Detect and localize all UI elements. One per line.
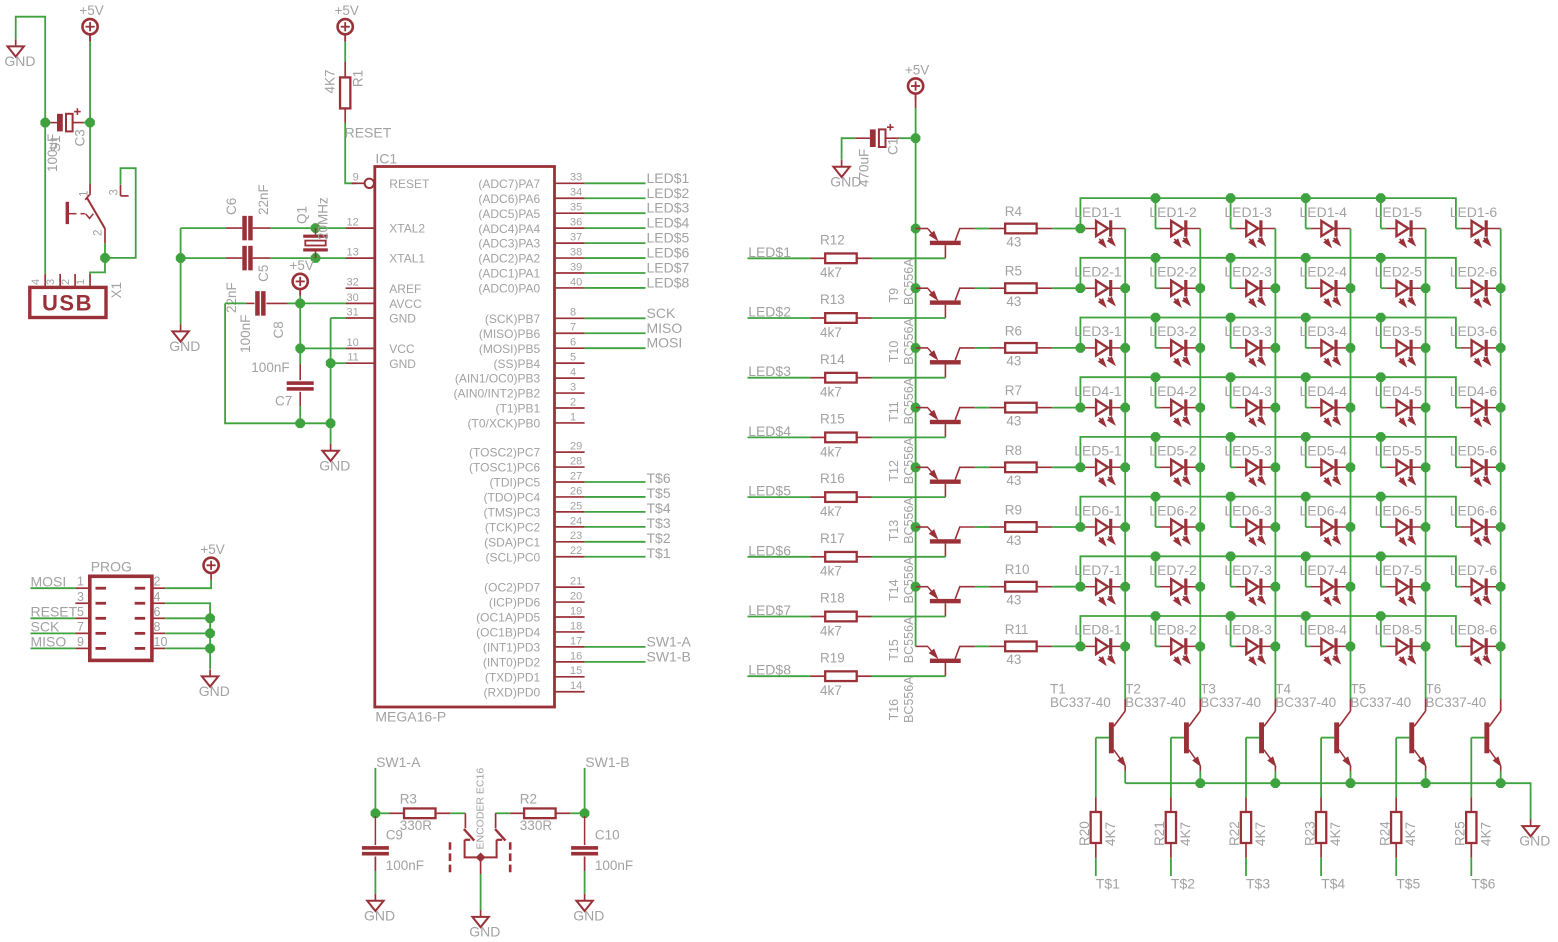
svg-text:2: 2 bbox=[60, 279, 72, 285]
svg-text:LED7-3: LED7-3 bbox=[1224, 562, 1272, 578]
svg-text:LED4-3: LED4-3 bbox=[1224, 383, 1272, 399]
svg-text:4: 4 bbox=[30, 279, 42, 285]
svg-text:T$4: T$4 bbox=[647, 500, 671, 516]
svg-text:4k7: 4k7 bbox=[820, 683, 842, 698]
svg-text:LED8-3: LED8-3 bbox=[1224, 622, 1272, 638]
svg-text:(ICP)PD6: (ICP)PD6 bbox=[489, 596, 541, 610]
svg-text:R22: R22 bbox=[1227, 821, 1242, 846]
svg-text:(OC2)PD7: (OC2)PD7 bbox=[484, 581, 540, 595]
svg-text:5: 5 bbox=[570, 352, 576, 364]
svg-text:SW1-A: SW1-A bbox=[647, 633, 692, 649]
svg-text:LED1-3: LED1-3 bbox=[1224, 204, 1272, 220]
svg-text:4k7: 4k7 bbox=[820, 623, 842, 638]
svg-text:(INT1)PD3: (INT1)PD3 bbox=[483, 641, 541, 655]
svg-text:C8: C8 bbox=[271, 321, 286, 338]
svg-text:40: 40 bbox=[570, 276, 582, 288]
svg-text:4K7: 4K7 bbox=[1328, 822, 1343, 846]
svg-text:4k7: 4k7 bbox=[820, 265, 842, 280]
svg-text:43: 43 bbox=[1006, 354, 1021, 369]
svg-text:BC556A: BC556A bbox=[902, 258, 916, 305]
svg-text:100nF: 100nF bbox=[386, 858, 424, 873]
svg-text:7: 7 bbox=[77, 620, 84, 634]
svg-text:LED2-6: LED2-6 bbox=[1450, 264, 1498, 280]
svg-text:20MHz: 20MHz bbox=[316, 197, 331, 240]
svg-text:LED1-2: LED1-2 bbox=[1149, 204, 1197, 220]
svg-text:LED5-3: LED5-3 bbox=[1224, 443, 1272, 459]
svg-text:T16: T16 bbox=[887, 699, 901, 721]
svg-text:LED1-1: LED1-1 bbox=[1074, 204, 1122, 220]
svg-text:35: 35 bbox=[570, 202, 582, 214]
svg-text:3: 3 bbox=[77, 590, 84, 604]
svg-text:C1: C1 bbox=[886, 138, 901, 155]
svg-text:LED3-6: LED3-6 bbox=[1450, 323, 1498, 339]
svg-text:30: 30 bbox=[347, 292, 359, 304]
svg-text:2: 2 bbox=[570, 396, 576, 408]
svg-text:C6: C6 bbox=[224, 198, 239, 215]
svg-text:C5: C5 bbox=[256, 265, 271, 282]
svg-text:16: 16 bbox=[570, 650, 582, 662]
svg-text:8: 8 bbox=[154, 620, 161, 634]
svg-text:1: 1 bbox=[75, 279, 87, 285]
svg-text:R4: R4 bbox=[1005, 204, 1023, 219]
svg-text:R20: R20 bbox=[1077, 821, 1092, 846]
svg-text:33: 33 bbox=[570, 172, 582, 184]
svg-text:25: 25 bbox=[570, 500, 582, 512]
svg-text:R10: R10 bbox=[1005, 562, 1030, 577]
svg-text:12: 12 bbox=[347, 217, 359, 229]
svg-text:39: 39 bbox=[570, 261, 582, 273]
svg-text:R23: R23 bbox=[1302, 821, 1317, 846]
svg-text:(SDA)PC1: (SDA)PC1 bbox=[484, 535, 540, 549]
svg-text:4K7: 4K7 bbox=[1403, 822, 1418, 846]
svg-text:T$6: T$6 bbox=[647, 470, 671, 486]
svg-text:LED2-3: LED2-3 bbox=[1224, 264, 1272, 280]
svg-text:T14: T14 bbox=[887, 579, 901, 601]
svg-text:PROG: PROG bbox=[91, 559, 132, 575]
svg-text:LED$3: LED$3 bbox=[647, 200, 690, 216]
svg-text:6: 6 bbox=[570, 337, 576, 349]
svg-text:10: 10 bbox=[154, 635, 168, 649]
svg-text:1: 1 bbox=[79, 190, 91, 196]
svg-text:+5V: +5V bbox=[289, 258, 313, 273]
svg-text:34: 34 bbox=[570, 187, 582, 199]
svg-text:RESET: RESET bbox=[31, 604, 78, 620]
svg-text:R13: R13 bbox=[820, 292, 845, 307]
svg-text:+5V: +5V bbox=[334, 3, 358, 18]
svg-text:GND: GND bbox=[169, 338, 200, 354]
svg-text:4K7: 4K7 bbox=[1478, 822, 1493, 846]
svg-text:17: 17 bbox=[570, 635, 582, 647]
svg-text:LED3-2: LED3-2 bbox=[1149, 323, 1197, 339]
svg-text:R19: R19 bbox=[820, 650, 845, 665]
svg-text:GND: GND bbox=[389, 357, 416, 371]
svg-text:43: 43 bbox=[1006, 593, 1021, 608]
svg-text:SCK: SCK bbox=[31, 619, 60, 635]
svg-text:MEGA16-P: MEGA16-P bbox=[375, 709, 446, 725]
svg-text:AREF: AREF bbox=[389, 282, 421, 296]
svg-text:470uF: 470uF bbox=[857, 149, 872, 187]
svg-text:+5V: +5V bbox=[79, 3, 103, 18]
svg-text:T9: T9 bbox=[887, 288, 901, 303]
svg-text:LED5-1: LED5-1 bbox=[1074, 443, 1122, 459]
svg-text:(SCK)PB7: (SCK)PB7 bbox=[485, 312, 541, 326]
svg-text:MOSI: MOSI bbox=[31, 573, 67, 589]
svg-text:R5: R5 bbox=[1005, 264, 1022, 279]
svg-text:R15: R15 bbox=[820, 412, 845, 427]
svg-text:R6: R6 bbox=[1005, 323, 1022, 338]
svg-text:(MOSI)PB5: (MOSI)PB5 bbox=[479, 342, 541, 356]
svg-text:20: 20 bbox=[570, 590, 582, 602]
svg-text:(ADC1)PA1: (ADC1)PA1 bbox=[478, 267, 540, 281]
svg-text:4: 4 bbox=[154, 590, 161, 604]
svg-text:(ADC7)PA7: (ADC7)PA7 bbox=[478, 177, 540, 191]
svg-text:LED7-1: LED7-1 bbox=[1074, 562, 1122, 578]
svg-text:C3: C3 bbox=[73, 129, 88, 146]
svg-text:R25: R25 bbox=[1453, 821, 1468, 846]
svg-text:(ADC6)PA6: (ADC6)PA6 bbox=[478, 192, 540, 206]
svg-text:(TOSC2)PC7: (TOSC2)PC7 bbox=[469, 446, 540, 460]
svg-text:4k7: 4k7 bbox=[820, 504, 842, 519]
svg-text:T$6: T$6 bbox=[1471, 876, 1495, 892]
svg-text:BC337-40: BC337-40 bbox=[1275, 695, 1336, 710]
svg-text:LED6-1: LED6-1 bbox=[1074, 502, 1122, 518]
svg-text:C9: C9 bbox=[386, 828, 403, 843]
svg-text:R12: R12 bbox=[820, 232, 845, 247]
svg-text:R3: R3 bbox=[400, 791, 417, 806]
svg-text:4K7: 4K7 bbox=[1178, 822, 1193, 846]
svg-text:LED5-5: LED5-5 bbox=[1375, 443, 1423, 459]
svg-text:BC556A: BC556A bbox=[902, 437, 916, 484]
svg-text:4k7: 4k7 bbox=[820, 325, 842, 340]
svg-text:3: 3 bbox=[109, 189, 121, 195]
svg-text:LED8-2: LED8-2 bbox=[1149, 622, 1197, 638]
svg-text:4K7: 4K7 bbox=[1253, 822, 1268, 846]
svg-text:R18: R18 bbox=[820, 591, 845, 606]
svg-text:GND: GND bbox=[199, 683, 230, 699]
svg-text:26: 26 bbox=[570, 485, 582, 497]
svg-text:2: 2 bbox=[154, 575, 161, 589]
svg-text:(ADC5)PA5: (ADC5)PA5 bbox=[478, 207, 540, 221]
svg-text:(AIN0/INT2)PB2: (AIN0/INT2)PB2 bbox=[453, 387, 540, 401]
svg-text:LED8-5: LED8-5 bbox=[1375, 622, 1423, 638]
svg-text:BC556A: BC556A bbox=[902, 676, 916, 723]
svg-text:BC337-40: BC337-40 bbox=[1426, 695, 1487, 710]
svg-text:LED$2: LED$2 bbox=[647, 185, 690, 201]
svg-text:24: 24 bbox=[570, 515, 582, 527]
svg-text:BC556A: BC556A bbox=[902, 616, 916, 663]
svg-text:T$5: T$5 bbox=[1396, 876, 1420, 892]
svg-text:9: 9 bbox=[77, 635, 84, 649]
svg-text:(OC1B)PD4: (OC1B)PD4 bbox=[476, 626, 540, 640]
svg-text:R1: R1 bbox=[351, 70, 366, 87]
svg-text:37: 37 bbox=[570, 232, 582, 244]
svg-text:T$2: T$2 bbox=[1171, 876, 1195, 892]
svg-text:GND: GND bbox=[389, 312, 416, 326]
svg-text:GND: GND bbox=[1519, 833, 1550, 849]
svg-text:T$2: T$2 bbox=[647, 530, 671, 546]
svg-text:T13: T13 bbox=[887, 520, 901, 542]
svg-text:LED4-6: LED4-6 bbox=[1450, 383, 1498, 399]
svg-text:4K7: 4K7 bbox=[1103, 822, 1118, 846]
svg-text:LED$1: LED$1 bbox=[647, 170, 690, 186]
svg-text:100nF: 100nF bbox=[251, 360, 289, 375]
svg-text:LED6-3: LED6-3 bbox=[1224, 502, 1272, 518]
svg-text:(RXD)PD0: (RXD)PD0 bbox=[484, 685, 541, 699]
svg-text:330R: 330R bbox=[400, 818, 433, 833]
svg-text:R16: R16 bbox=[820, 471, 845, 486]
svg-text:(T1)PB1: (T1)PB1 bbox=[496, 402, 541, 416]
svg-text:MISO: MISO bbox=[647, 320, 683, 336]
svg-text:LED2-4: LED2-4 bbox=[1300, 264, 1348, 280]
svg-text:BC337-40: BC337-40 bbox=[1050, 695, 1111, 710]
svg-text:T$3: T$3 bbox=[647, 515, 671, 531]
svg-text:(TDI)PC5: (TDI)PC5 bbox=[490, 476, 541, 490]
svg-text:11: 11 bbox=[347, 352, 358, 364]
svg-text:LED8-4: LED8-4 bbox=[1300, 622, 1348, 638]
svg-text:LED6-2: LED6-2 bbox=[1149, 502, 1197, 518]
svg-text:LED3-4: LED3-4 bbox=[1300, 323, 1348, 339]
svg-text:10: 10 bbox=[347, 337, 359, 349]
svg-text:R11: R11 bbox=[1005, 622, 1029, 637]
svg-text:LED8-6: LED8-6 bbox=[1450, 622, 1498, 638]
svg-text:BC337-40: BC337-40 bbox=[1200, 695, 1261, 710]
svg-text:X1: X1 bbox=[109, 282, 124, 299]
svg-text:LED4-4: LED4-4 bbox=[1300, 383, 1348, 399]
svg-text:(MISO)PB6: (MISO)PB6 bbox=[479, 327, 541, 341]
svg-text:23: 23 bbox=[570, 530, 582, 542]
svg-text:7: 7 bbox=[570, 322, 576, 334]
svg-text:18: 18 bbox=[570, 620, 582, 632]
svg-text:3: 3 bbox=[45, 279, 57, 285]
svg-text:LED7-2: LED7-2 bbox=[1149, 562, 1197, 578]
svg-text:R17: R17 bbox=[820, 531, 845, 546]
svg-text:IC1: IC1 bbox=[375, 151, 397, 167]
svg-text:LED7-5: LED7-5 bbox=[1375, 562, 1423, 578]
svg-text:(TOSC1)PC6: (TOSC1)PC6 bbox=[469, 461, 540, 475]
svg-text:T15: T15 bbox=[887, 639, 901, 661]
svg-text:T10: T10 bbox=[887, 341, 901, 363]
svg-text:(ADC0)PA0: (ADC0)PA0 bbox=[478, 282, 540, 296]
svg-text:GND: GND bbox=[364, 907, 395, 923]
svg-text:(ADC3)PA3: (ADC3)PA3 bbox=[478, 237, 540, 251]
svg-text:LED7-4: LED7-4 bbox=[1300, 562, 1348, 578]
svg-text:29: 29 bbox=[570, 441, 582, 453]
svg-text:330R: 330R bbox=[520, 818, 553, 833]
svg-text:38: 38 bbox=[570, 246, 582, 258]
svg-text:13: 13 bbox=[347, 247, 359, 259]
svg-text:VCC: VCC bbox=[389, 342, 415, 356]
svg-text:32: 32 bbox=[347, 277, 359, 289]
svg-text:LED$5: LED$5 bbox=[647, 230, 690, 246]
svg-text:LED5-4: LED5-4 bbox=[1300, 443, 1348, 459]
svg-text:(INT0)PD2: (INT0)PD2 bbox=[483, 655, 541, 669]
svg-text:LED$6: LED$6 bbox=[647, 245, 690, 261]
svg-text:LED4-5: LED4-5 bbox=[1375, 383, 1423, 399]
svg-text:LED3-3: LED3-3 bbox=[1224, 323, 1272, 339]
svg-text:(TCK)PC2: (TCK)PC2 bbox=[485, 520, 541, 534]
svg-text:T11: T11 bbox=[887, 401, 901, 422]
svg-text:6: 6 bbox=[154, 605, 161, 619]
svg-text:(T0/XCK)PB0: (T0/XCK)PB0 bbox=[468, 417, 541, 431]
svg-text:MOSI: MOSI bbox=[647, 335, 683, 351]
svg-text:22nF: 22nF bbox=[256, 184, 271, 215]
svg-text:LED3-1: LED3-1 bbox=[1074, 323, 1122, 339]
svg-text:2: 2 bbox=[93, 230, 105, 236]
svg-text:SW1-B: SW1-B bbox=[647, 648, 691, 664]
svg-text:43: 43 bbox=[1006, 652, 1021, 667]
svg-text:8: 8 bbox=[570, 307, 576, 319]
svg-text:100nF: 100nF bbox=[595, 858, 633, 873]
svg-text:+5V: +5V bbox=[200, 542, 224, 557]
svg-text:SW1-B: SW1-B bbox=[585, 754, 629, 770]
svg-text:C7: C7 bbox=[275, 394, 292, 409]
svg-text:(SS)PB4: (SS)PB4 bbox=[494, 357, 541, 371]
svg-text:LED$4: LED$4 bbox=[647, 215, 690, 231]
svg-text:T12: T12 bbox=[887, 460, 901, 482]
svg-text:5: 5 bbox=[77, 605, 84, 619]
svg-text:T$5: T$5 bbox=[647, 485, 671, 501]
svg-text:SW1-A: SW1-A bbox=[376, 754, 421, 770]
svg-text:LED$7: LED$7 bbox=[647, 260, 690, 276]
svg-text:31: 31 bbox=[347, 306, 359, 318]
svg-text:C10: C10 bbox=[595, 828, 620, 843]
svg-text:19: 19 bbox=[570, 605, 582, 617]
svg-text:R14: R14 bbox=[820, 352, 845, 367]
svg-text:43: 43 bbox=[1006, 533, 1021, 548]
svg-text:LED5-2: LED5-2 bbox=[1149, 443, 1197, 459]
svg-text:LED6-6: LED6-6 bbox=[1450, 502, 1498, 518]
svg-text:LED1-5: LED1-5 bbox=[1375, 204, 1423, 220]
svg-text:R8: R8 bbox=[1005, 443, 1022, 458]
svg-text:BC556A: BC556A bbox=[902, 317, 916, 364]
svg-text:LED2-2: LED2-2 bbox=[1149, 264, 1197, 280]
svg-text:22: 22 bbox=[570, 545, 582, 557]
svg-text:GND: GND bbox=[573, 907, 604, 923]
svg-text:LED6-4: LED6-4 bbox=[1300, 502, 1348, 518]
svg-text:1: 1 bbox=[77, 575, 84, 589]
svg-text:T$1: T$1 bbox=[647, 545, 671, 561]
svg-text:LED8-1: LED8-1 bbox=[1074, 622, 1122, 638]
svg-text:+5V: +5V bbox=[905, 63, 929, 78]
svg-text:XTAL2: XTAL2 bbox=[389, 222, 425, 236]
svg-text:15: 15 bbox=[570, 665, 582, 677]
svg-text:BC556A: BC556A bbox=[902, 556, 916, 603]
svg-text:SCK: SCK bbox=[647, 305, 676, 321]
svg-text:LED2-5: LED2-5 bbox=[1375, 264, 1423, 280]
svg-text:R21: R21 bbox=[1152, 821, 1167, 846]
svg-text:RESET: RESET bbox=[345, 125, 392, 141]
svg-text:100nF: 100nF bbox=[238, 315, 253, 353]
svg-text:1: 1 bbox=[570, 411, 576, 423]
svg-text:BC556A: BC556A bbox=[902, 377, 916, 424]
svg-text:(TMS)PC3: (TMS)PC3 bbox=[484, 506, 541, 520]
svg-text:LED7-6: LED7-6 bbox=[1450, 562, 1498, 578]
svg-text:BC337-40: BC337-40 bbox=[1125, 695, 1186, 710]
svg-text:9: 9 bbox=[353, 172, 359, 184]
svg-text:(TDO)PC4: (TDO)PC4 bbox=[484, 491, 541, 505]
svg-text:(TXD)PD1: (TXD)PD1 bbox=[485, 670, 541, 684]
svg-text:(ADC4)PA4: (ADC4)PA4 bbox=[478, 222, 540, 236]
svg-text:ENCODER EC16: ENCODER EC16 bbox=[475, 768, 487, 850]
svg-text:43: 43 bbox=[1006, 413, 1021, 428]
svg-text:T$3: T$3 bbox=[1246, 876, 1270, 892]
svg-text:S1: S1 bbox=[48, 135, 63, 152]
svg-text:3: 3 bbox=[570, 381, 576, 393]
svg-text:GND: GND bbox=[4, 53, 35, 69]
svg-text:(SCL)PC0: (SCL)PC0 bbox=[486, 550, 541, 564]
svg-text:R7: R7 bbox=[1005, 383, 1022, 398]
svg-text:43: 43 bbox=[1006, 473, 1021, 488]
svg-text:BC337-40: BC337-40 bbox=[1350, 695, 1411, 710]
svg-text:36: 36 bbox=[570, 217, 582, 229]
svg-text:14: 14 bbox=[570, 680, 582, 692]
svg-text:LED6-5: LED6-5 bbox=[1375, 502, 1423, 518]
svg-text:AVCC: AVCC bbox=[389, 297, 422, 311]
svg-text:LED4-2: LED4-2 bbox=[1149, 383, 1197, 399]
svg-text:LED2-1: LED2-1 bbox=[1074, 264, 1122, 280]
svg-text:GND: GND bbox=[469, 923, 500, 939]
svg-text:4k7: 4k7 bbox=[820, 564, 842, 579]
svg-text:LED4-1: LED4-1 bbox=[1074, 383, 1122, 399]
svg-text:4K7: 4K7 bbox=[323, 69, 338, 93]
svg-text:RESET: RESET bbox=[389, 177, 430, 191]
svg-text:27: 27 bbox=[570, 470, 582, 482]
svg-text:22nF: 22nF bbox=[224, 282, 239, 313]
svg-text:BC556A: BC556A bbox=[902, 497, 916, 544]
svg-text:T$1: T$1 bbox=[1096, 876, 1120, 892]
svg-text:XTAL1: XTAL1 bbox=[389, 252, 425, 266]
svg-text:MISO: MISO bbox=[31, 634, 67, 650]
svg-text:4: 4 bbox=[570, 367, 576, 379]
svg-text:4k7: 4k7 bbox=[820, 444, 842, 459]
svg-text:USB: USB bbox=[42, 291, 93, 316]
svg-text:R2: R2 bbox=[520, 791, 537, 806]
svg-text:4k7: 4k7 bbox=[820, 385, 842, 400]
svg-text:GND: GND bbox=[319, 457, 350, 473]
svg-text:43: 43 bbox=[1006, 294, 1021, 309]
svg-text:R9: R9 bbox=[1005, 503, 1022, 518]
svg-text:LED$8: LED$8 bbox=[647, 274, 690, 290]
svg-text:43: 43 bbox=[1006, 234, 1021, 249]
svg-text:LED3-5: LED3-5 bbox=[1375, 323, 1423, 339]
svg-text:Q1: Q1 bbox=[295, 206, 310, 224]
svg-text:LED5-6: LED5-6 bbox=[1450, 443, 1498, 459]
svg-text:LED1-4: LED1-4 bbox=[1300, 204, 1348, 220]
svg-text:(OC1A)PD5: (OC1A)PD5 bbox=[476, 611, 540, 625]
svg-text:LED1-6: LED1-6 bbox=[1450, 204, 1498, 220]
svg-text:R24: R24 bbox=[1377, 821, 1392, 846]
svg-text:(ADC2)PA2: (ADC2)PA2 bbox=[478, 252, 540, 266]
svg-text:T$4: T$4 bbox=[1321, 876, 1345, 892]
svg-text:21: 21 bbox=[570, 576, 582, 588]
svg-text:28: 28 bbox=[570, 455, 582, 467]
svg-text:(AIN1/OC0)PB3: (AIN1/OC0)PB3 bbox=[455, 372, 541, 386]
